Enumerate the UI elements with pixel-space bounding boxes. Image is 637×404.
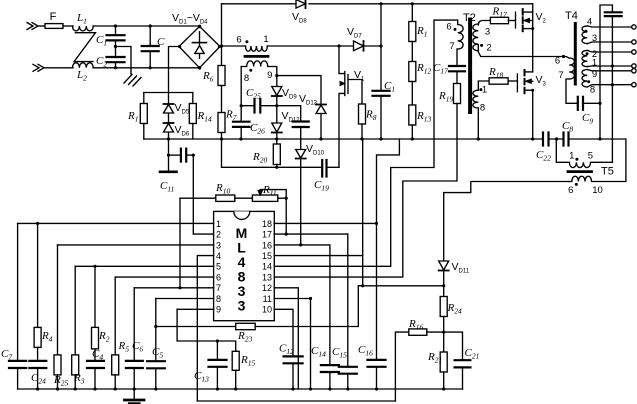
diode VD7 [354, 41, 382, 51]
diode VD12 [272, 123, 282, 144]
op-amp U1 IC ML4833 body [214, 211, 275, 320]
wire C1C2 midpoint to ground [116, 47, 132, 75]
wire IC pin10 row [274, 309, 293, 356]
capacitor C [142, 26, 159, 68]
wire bottom AC to bridge [93, 67, 200, 69]
wire IC pin1 row [18, 222, 214, 224]
wire IC pin3 row [58, 244, 214, 246]
diode VD9 [272, 76, 282, 123]
junction dots: T5 winding polarity [575, 158, 579, 186]
wire IC pin7 row [134, 287, 213, 289]
wire T2 pin3 to R17 [478, 21, 490, 26]
wire output filter vertical [611, 16, 613, 162]
wire pin17 to C15 [347, 234, 349, 367]
svg-text:1: 1 [482, 85, 487, 96]
svg-text:1: 1 [592, 57, 597, 68]
svg-text:11: 11 [263, 294, 272, 304]
capacitor (unlabeled, near C11) [169, 149, 194, 162]
IC name ML4833 [236, 225, 248, 314]
wire IC pin4 to lower rail [197, 256, 213, 401]
wire R10 row to IC pin7 [179, 198, 181, 288]
capacitor C8 [564, 133, 569, 146]
junction dots: top rail [379, 2, 414, 5]
resistor R3 [72, 266, 79, 389]
resistor R6 [218, 66, 225, 113]
resistor R19 [454, 84, 461, 104]
resistor R13 [409, 105, 416, 139]
choke core Z [74, 33, 95, 62]
capacitor C25 [241, 99, 277, 113]
transformer T1 core [245, 55, 268, 58]
svg-text:6: 6 [446, 22, 451, 33]
resistor R15 [232, 351, 239, 389]
junction dots: ground rail [36, 387, 445, 390]
capacitor C14 [321, 365, 339, 389]
svg-text:10: 10 [262, 305, 272, 315]
junction dots: mid rail [167, 137, 602, 140]
transistor V2 [516, 4, 533, 31]
diode VD6 [164, 123, 174, 132]
capacitor C10 (top right) [605, 12, 622, 16]
diode VD5 [164, 93, 174, 140]
resistor R2 [92, 266, 99, 361]
wire pin18 riser jog from rail [377, 139, 400, 360]
svg-text:15: 15 [262, 251, 272, 261]
svg-text:4: 4 [216, 251, 221, 261]
wire rail drop to bridge output [221, 4, 223, 66]
svg-text:9: 9 [216, 305, 221, 315]
svg-text:T5: T5 [601, 166, 614, 178]
wire IC pin12 row [274, 288, 298, 389]
svg-text:8: 8 [590, 85, 595, 96]
wire IC pin16 row [274, 245, 330, 365]
resistor R23 [156, 286, 358, 330]
svg-text:C: C [157, 36, 165, 48]
diode VD13 [316, 105, 326, 140]
transformer T4 winding 9-8 [582, 70, 633, 88]
transistor V1 [339, 46, 362, 167]
svg-text:18: 18 [262, 219, 272, 229]
wire V3 source to rail [532, 90, 534, 139]
transformer T1 secondary winding 8-9 [241, 61, 277, 139]
svg-text:1: 1 [263, 34, 268, 45]
capacitor C1 [107, 26, 125, 47]
resistor R21 [440, 352, 447, 389]
resistor R12 [409, 62, 416, 106]
resistor R16 [395, 329, 462, 401]
wire top AC to bridge [93, 25, 200, 27]
capacitor C22 [543, 133, 549, 146]
wire VD5 box top rail [144, 92, 193, 94]
wire T2 pin6 to pin14 route [274, 20, 457, 266]
resistor R4 [34, 223, 41, 361]
wire rail to pin15 and VD11 node [362, 139, 364, 286]
wire IC pin17 row [274, 233, 348, 235]
wire IC pin9 to C13 R15 [177, 309, 236, 351]
input terminal bottom [33, 64, 73, 71]
resistor R25 [54, 245, 61, 389]
svg-text:3: 3 [216, 240, 221, 250]
wire T1 input node [220, 45, 246, 47]
svg-text:T4: T4 [565, 10, 578, 22]
resistor R8 [359, 104, 366, 139]
capacitor C19 [322, 160, 339, 177]
svg-text:8: 8 [480, 103, 485, 114]
wire bridge left corner to VD5 box [169, 47, 180, 93]
capacitor C9 [578, 97, 600, 110]
transistor V3 [517, 70, 532, 93]
diode VD10 [296, 139, 306, 159]
capacitor C13 [209, 341, 227, 389]
junction dots: V2 V3 body ties [531, 27, 534, 92]
wire T2 pin1 to R18 [478, 81, 489, 90]
junction dots: AC input filter [114, 24, 221, 69]
wire IC pin8 row [156, 298, 214, 300]
resistor R1 (left box) [140, 93, 147, 140]
bridge rectifier VD1~VD4 [179, 26, 220, 67]
junction dots: C11 node [167, 154, 279, 169]
wire T2 pin2 to T4 pin6 [478, 45, 569, 58]
resistor R24 [440, 297, 447, 353]
junction dots: T4 windings and outputs [562, 30, 614, 105]
svg-text:6: 6 [216, 273, 221, 283]
transformer T5 core [568, 170, 592, 173]
wire R11 to IC pin17 [285, 198, 287, 234]
svg-text:7: 7 [558, 70, 563, 81]
capacitor C24 [29, 361, 46, 389]
resistor R14 [189, 93, 196, 140]
svg-text:9: 9 [267, 70, 272, 81]
transformer T2 core [468, 20, 472, 113]
resistor R17 [490, 17, 515, 23]
wire T5 pin6 to VD11 [444, 182, 569, 261]
capacitor C6 [126, 288, 143, 389]
svg-text:10: 10 [592, 185, 603, 196]
wire T1 output to VD7 [267, 45, 353, 47]
svg-text:7: 7 [449, 41, 454, 52]
svg-text:6: 6 [555, 56, 560, 67]
resistor R1 (column) [409, 4, 416, 62]
svg-text:7: 7 [216, 283, 221, 293]
capacitor C15 [339, 367, 357, 389]
wire IC pin6 row [115, 276, 213, 278]
transformer T2 winding 6-7 [458, 25, 463, 50]
diode VD11 [439, 261, 449, 297]
inductor L1 [73, 26, 94, 31]
junction dots: boost node [220, 44, 383, 47]
svg-text:T2: T2 [463, 12, 476, 24]
junction dots: feedback node [154, 284, 445, 342]
resistor R18 [489, 78, 517, 84]
transformer T2 winding 1-8 [473, 90, 478, 108]
svg-text:F: F [50, 11, 57, 23]
ground rail A [18, 388, 463, 390]
svg-text:1: 1 [569, 151, 574, 162]
input terminal top [27, 23, 45, 30]
wire IC pin15 row [274, 255, 362, 257]
main mid rail [144, 139, 626, 181]
capacitor C16 [368, 360, 386, 389]
svg-text:8: 8 [244, 73, 249, 84]
wire IC pin18 row [274, 222, 376, 224]
svg-text:2: 2 [216, 230, 221, 240]
transformer T5 winding 6-10 [569, 176, 626, 181]
transformer T2 winding 3-2 [473, 24, 478, 51]
svg-text:8: 8 [216, 294, 221, 304]
svg-text:9: 9 [592, 69, 597, 80]
svg-text:5: 5 [588, 151, 593, 162]
resistor R10 [180, 195, 252, 201]
wire IC pin5 row [75, 265, 213, 267]
capacitor C21 [455, 360, 471, 389]
transformer T4 core [574, 24, 577, 85]
capacitor C12 [284, 356, 303, 389]
capacitor C5 [147, 299, 165, 390]
transformer T1 primary winding 6-1 [246, 46, 268, 51]
svg-text:12: 12 [262, 283, 272, 293]
svg-text:16: 16 [262, 240, 272, 250]
capacitor C26 [233, 122, 250, 127]
svg-text:3: 3 [238, 298, 246, 314]
wire V2 source to V3 drain [532, 12, 534, 72]
svg-text:17: 17 [262, 230, 272, 240]
resistor R5 [112, 277, 119, 389]
capacitor C11 plate [160, 139, 177, 172]
svg-text:6: 6 [236, 35, 241, 46]
wire IC pin11 row [274, 299, 310, 390]
svg-text:5: 5 [216, 262, 221, 272]
fuse F [45, 24, 73, 29]
wire R19 to pin13 route [274, 104, 457, 278]
ground (top, chassis) [124, 75, 141, 87]
resistor R20 [273, 144, 280, 167]
capacitor C4 [87, 361, 104, 389]
IC pin numbers right [262, 219, 272, 315]
wire R20 bottom row [222, 139, 323, 167]
wire T1 pin9 to VD13 [277, 76, 321, 105]
IC pin numbers left [216, 219, 221, 315]
wire VD10 to IC pin16 [300, 159, 302, 245]
junction dots: IC pin rows [36, 197, 378, 301]
potentiometer R11 [252, 190, 286, 202]
wire T2 pin8 to rail [477, 108, 479, 139]
transformer T4 winding 6-7 [566, 58, 578, 103]
capacitor C17 [449, 49, 465, 84]
svg-text:4: 4 [587, 17, 592, 28]
transformer T5 winding 1-5 [556, 139, 612, 168]
wire VD11 node to pin15 riser [358, 285, 443, 287]
capacitor C1b (near V1) [373, 4, 390, 139]
wire IC pin9 row [177, 308, 214, 310]
svg-text:14: 14 [262, 262, 272, 272]
resistor R7 [218, 113, 225, 140]
svg-text:13: 13 [262, 273, 272, 283]
svg-text:3: 3 [592, 33, 597, 44]
wire cap to IC pin2 [193, 155, 213, 234]
capacitor (unlabeled, VD12 branch) [277, 106, 309, 139]
svg-text:2: 2 [486, 43, 491, 54]
diode VD8 [296, 0, 306, 8]
junction dots: T1 windings [240, 40, 279, 107]
ground (bottom) [125, 389, 145, 403]
top rail [222, 3, 533, 5]
svg-text:6: 6 [568, 185, 573, 196]
inductor L2 [73, 63, 94, 68]
svg-text:3: 3 [485, 27, 490, 38]
transformer T4 winding 2-1 [582, 50, 633, 66]
junction dots: T2 winding polarity [454, 28, 484, 91]
output terminal circles [632, 25, 636, 87]
capacitor C2 [107, 47, 125, 68]
lower rail B [197, 400, 395, 402]
transformer T4 winding 4-3 [582, 26, 633, 44]
svg-text:1: 1 [216, 219, 221, 229]
capacitor C7 [9, 223, 26, 389]
wire C9 node vertical [600, 5, 612, 139]
